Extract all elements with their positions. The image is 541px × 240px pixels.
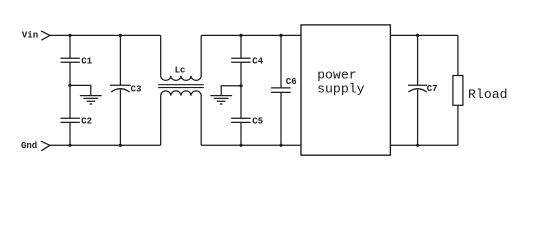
wire C1 branch top	[69, 35, 71, 58]
svg-text:C2: C2	[81, 116, 92, 126]
ground 2	[210, 86, 241, 104]
capacitor C3	[110, 35, 141, 145]
capacitor C1	[61, 57, 93, 67]
node C4 top junction	[239, 34, 242, 37]
node C6 bottom junction	[279, 144, 282, 147]
capacitor C5	[231, 116, 263, 126]
node C7 top junction	[416, 34, 419, 37]
node C3 bottom junction	[119, 144, 122, 147]
svg-text:C6: C6	[286, 77, 297, 87]
node Gnd port	[21, 141, 50, 151]
inductor Lc common-mode choke	[158, 35, 204, 145]
node C5 bottom junction	[239, 144, 242, 147]
svg-text:power: power	[317, 67, 357, 82]
node Vin port	[22, 31, 50, 41]
svg-text:supply: supply	[317, 82, 365, 97]
capacitor C6	[271, 35, 297, 145]
svg-text:Vin: Vin	[22, 31, 38, 41]
capacitor C4	[231, 57, 264, 67]
svg-text:Gnd: Gnd	[21, 141, 37, 151]
resistor Rload	[453, 35, 508, 145]
wire top rail middle	[201, 34, 301, 36]
wire C4 branch top	[240, 35, 242, 58]
ground 1	[70, 85, 102, 104]
wire bottom rail left	[50, 144, 161, 146]
svg-text:Lc: Lc	[175, 66, 186, 76]
node ground 2 tap junction	[239, 84, 242, 87]
svg-text:Rload: Rload	[468, 87, 508, 102]
node C1 top junction	[68, 34, 71, 37]
node C3 top junction	[119, 34, 122, 37]
wire C2 branch bottom	[69, 122, 71, 145]
wire top rail right	[390, 34, 458, 36]
wire C5 branch bottom	[240, 122, 242, 145]
capacitor C7	[408, 35, 438, 145]
node C7 bottom junction	[416, 144, 419, 147]
wire bottom rail middle	[201, 144, 301, 146]
power supply box U1	[301, 25, 390, 155]
svg-text:C4: C4	[252, 57, 263, 67]
svg-text:C5: C5	[252, 116, 263, 126]
wire C1 to C2	[69, 62, 71, 118]
svg-text:C1: C1	[81, 57, 92, 67]
wire bottom rail right	[390, 144, 458, 146]
wire top rail left	[50, 34, 161, 36]
svg-text:C3: C3	[131, 85, 142, 95]
capacitor C2	[61, 116, 93, 126]
node ground 1 tap junction	[68, 84, 71, 87]
wire C4 to C5	[240, 62, 242, 118]
svg-text:C7: C7	[427, 84, 438, 94]
node C6 top junction	[279, 34, 282, 37]
node C2 bottom junction	[68, 144, 71, 147]
